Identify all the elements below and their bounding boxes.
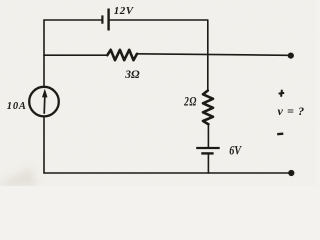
svg-text:6V: 6V	[229, 143, 242, 157]
svg-text:10A: 10A	[7, 101, 27, 112]
svg-text:2Ω: 2Ω	[183, 95, 197, 109]
svg-text:3Ω: 3Ω	[124, 69, 140, 81]
svg-text:12V: 12V	[114, 5, 135, 17]
svg-text:v = ?: v = ?	[278, 104, 305, 118]
